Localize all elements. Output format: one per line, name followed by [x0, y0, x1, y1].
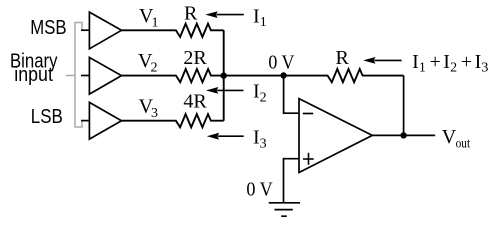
- wire and resistor R (R1) row 1: [122, 24, 224, 37]
- ground: [269, 203, 300, 216]
- svg-text:2R: 2R: [183, 47, 207, 69]
- node output junction: [400, 132, 406, 138]
- svg-text:out: out: [456, 136, 471, 151]
- label Binary input: [10, 51, 58, 87]
- svg-text:R: R: [184, 2, 198, 24]
- svg-text:+: +: [430, 51, 441, 73]
- svg-text:2: 2: [151, 61, 158, 76]
- label I1 + I2 + I3: [412, 51, 488, 76]
- svg-text:LSB: LSB: [31, 106, 63, 128]
- buffer U2: [89, 57, 121, 94]
- svg-text:I: I: [443, 51, 450, 73]
- wire feedback vertical: [403, 76, 405, 136]
- svg-text:3: 3: [260, 137, 267, 152]
- op-amp plus pin mark: [303, 153, 314, 165]
- label V3: [139, 96, 158, 122]
- binary input bracket: [66, 23, 82, 128]
- op-amp U4: [299, 99, 372, 173]
- svg-text:I: I: [475, 51, 482, 73]
- arrow feedback current: [363, 57, 402, 64]
- buffer U1: [89, 12, 121, 49]
- node inverting branch junction: [280, 72, 286, 78]
- svg-text:1: 1: [260, 15, 267, 30]
- wire and resistor 4R (R3) row 3: [122, 114, 224, 127]
- svg-text:1: 1: [152, 16, 159, 31]
- svg-text:0 V: 0 V: [246, 179, 273, 201]
- buffer U3: [89, 102, 121, 139]
- svg-text:+: +: [461, 51, 472, 73]
- wire MSB input: [81, 29, 89, 31]
- wire inverting input: [284, 76, 299, 114]
- wire bit2 input: [81, 75, 89, 77]
- svg-text:1: 1: [419, 61, 426, 76]
- wire summing bus vertical: [223, 30, 225, 120]
- svg-text:I: I: [412, 51, 419, 73]
- svg-text:0 V: 0 V: [268, 51, 294, 73]
- op-amp minus pin mark: [303, 113, 313, 115]
- svg-text:2: 2: [260, 91, 267, 106]
- wire and resistor 2R (R2) row 2 plus feedback resistor run: [122, 69, 404, 82]
- svg-text:I: I: [253, 6, 260, 28]
- label Vout: [442, 126, 470, 151]
- arrow I1: [205, 11, 244, 18]
- svg-text:input: input: [14, 64, 53, 86]
- label V2: [138, 50, 158, 76]
- label V1: [139, 5, 159, 30]
- svg-text:MSB: MSB: [30, 17, 66, 39]
- arrow I2: [206, 87, 244, 94]
- node summing junction: [221, 72, 227, 78]
- wire LSB input: [81, 120, 89, 122]
- label I2: [253, 81, 267, 106]
- wire non-inverting input to ground: [284, 159, 300, 203]
- wire output: [372, 134, 435, 136]
- svg-text:2: 2: [450, 61, 457, 76]
- arrow I3: [207, 133, 244, 140]
- svg-text:V: V: [442, 126, 457, 148]
- svg-text:4R: 4R: [183, 90, 207, 112]
- svg-text:3: 3: [481, 61, 488, 76]
- label I1: [253, 6, 267, 31]
- svg-text:3: 3: [151, 106, 158, 121]
- svg-text:R: R: [336, 47, 350, 69]
- label I3: [253, 127, 267, 152]
